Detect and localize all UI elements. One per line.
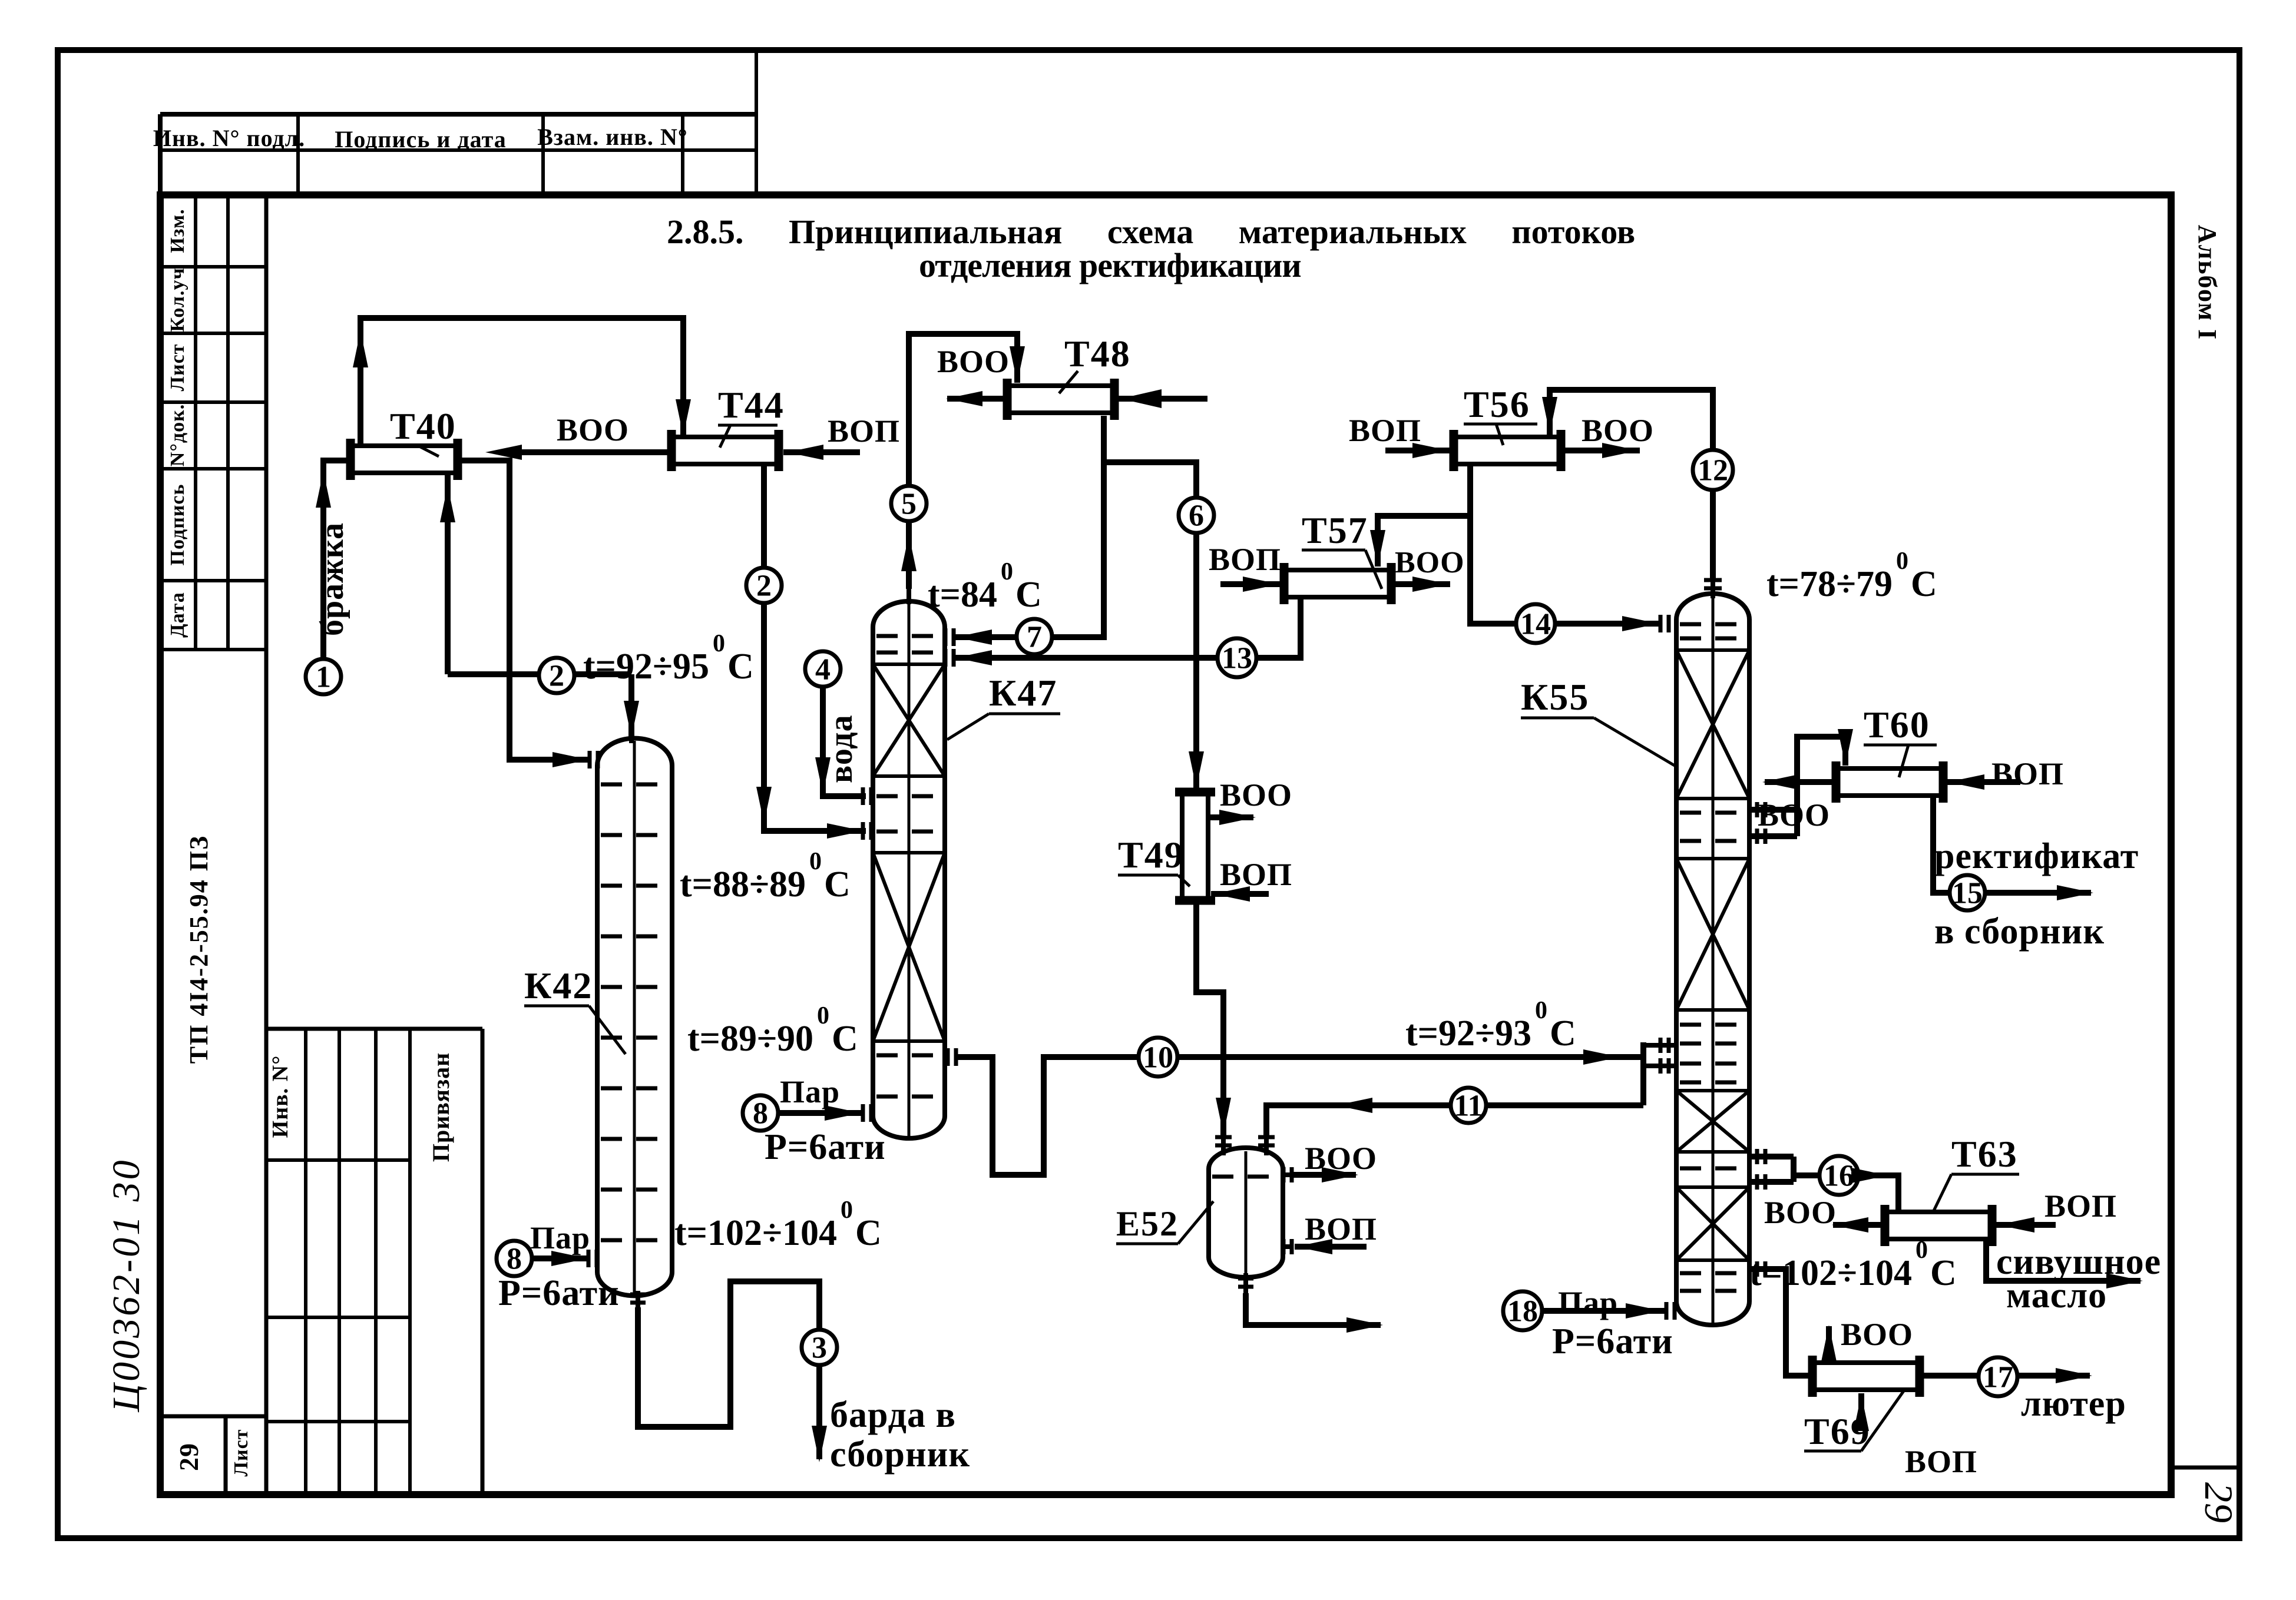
- svg-text:2: 2: [549, 660, 564, 693]
- column К55 draw tray: [1680, 1167, 1746, 1171]
- top margin table divider 2: [541, 114, 545, 195]
- svg-text:2: 2: [756, 569, 772, 603]
- arrow Т69 ВОО up: [1821, 1325, 1837, 1362]
- revision table row 2: [160, 332, 266, 335]
- svg-text:3: 3: [812, 1331, 827, 1365]
- arrow Е52 ВОО right: [1322, 1167, 1358, 1182]
- svg-text:6: 6: [1189, 499, 1204, 533]
- column К55 feed stubs: [1643, 1043, 1676, 1048]
- pipe К55 bottoms to Т69: [1749, 1269, 1812, 1376]
- column К55 centre line: [1712, 597, 1715, 1324]
- pipe Т44 ВОО outlet: [518, 449, 671, 455]
- column К55 packing 1: [1676, 648, 1749, 652]
- svg-text:Лист: Лист: [167, 344, 188, 392]
- arrow ВОП into Т57: [1243, 577, 1279, 592]
- pipe Т69 outlet line 17: [1921, 1373, 2090, 1379]
- arrow into Т48 down: [1010, 346, 1025, 383]
- pipe Т48 condensate to К47 line 7: [952, 416, 1104, 637]
- svg-text:ректификат: ректификат: [1934, 836, 2139, 876]
- svg-text:К42: К42: [524, 965, 593, 1006]
- arrow into К55 reflux: [1622, 616, 1659, 631]
- arrow line 11 into Е52: [1336, 1098, 1372, 1113]
- heat exchanger Т49 body: [1182, 792, 1208, 900]
- column К47 packing section 1: [873, 662, 945, 666]
- svg-text:Т44: Т44: [718, 384, 785, 426]
- arrow Т60 ВОП left: [1948, 774, 1984, 790]
- arrow Т63 ВОП left: [1998, 1217, 2034, 1233]
- attachment table top edge: [266, 1027, 482, 1031]
- arrow Т60 ВОО left: [1762, 774, 1799, 790]
- revision table col line b: [226, 195, 230, 650]
- column К55 draw nozzle flanges: [1755, 1149, 1759, 1164]
- svg-text:17: 17: [1983, 1361, 2013, 1394]
- column К47 feed zone tray 1: [876, 794, 941, 799]
- heat exchanger Т57 body: [1284, 570, 1391, 597]
- svg-text:Привязан: Привязан: [428, 1052, 454, 1162]
- pipe line 16 К55 to Т63: [1749, 1157, 1898, 1210]
- svg-text:Пар: Пар: [1558, 1285, 1618, 1320]
- column К55 bottom tray 1: [1680, 1271, 1746, 1276]
- column К47 top dashed tray 1: [876, 634, 941, 638]
- pipe Т63 ВОО out: [1833, 1222, 1885, 1228]
- svg-text:барда в: барда в: [830, 1395, 956, 1435]
- arrow into К47 feed: [827, 823, 864, 839]
- bottom-left cell divider: [224, 1416, 228, 1495]
- pipe Т44 ВОП inlet: [783, 449, 860, 455]
- arrow steam into К42: [551, 1251, 588, 1266]
- column К55 feed tray 3: [1680, 1062, 1746, 1066]
- column К47 feed nozzle flange: [861, 822, 865, 840]
- svg-text:Взам. инв. N°: Взам. инв. N°: [537, 124, 688, 150]
- vessel Е52 shell: [1209, 1148, 1283, 1277]
- svg-text:вода: вода: [823, 714, 859, 783]
- column К47 steam nozzle flange: [861, 1104, 865, 1122]
- column К47 top dashed tray 2: [876, 651, 941, 655]
- column К42 tray 3: [601, 884, 669, 888]
- arrow into Т40 shell up: [440, 486, 455, 522]
- stream circle 18: [1503, 1291, 1542, 1330]
- stream circle 1: [306, 659, 341, 694]
- column К42 tray 7: [601, 1086, 669, 1091]
- inner frame left column extension up: [158, 114, 163, 195]
- svg-text:18: 18: [1507, 1295, 1538, 1329]
- arrow Е52 bottoms right: [1346, 1317, 1383, 1333]
- arrow into К47 line 13: [955, 650, 992, 665]
- column К42 tray 4: [601, 935, 669, 939]
- column К42 tray 5: [601, 985, 669, 989]
- svg-text:ВОП: ВОП: [1905, 1444, 1977, 1479]
- column К47 shell: [873, 601, 945, 1138]
- pipe Т69 ВОП up: [1858, 1393, 1864, 1430]
- svg-text:ВОП: ВОП: [1991, 756, 2064, 791]
- stream circle 3: [802, 1330, 837, 1365]
- pipe ВОО out of Т57: [1391, 581, 1450, 587]
- svg-text:ВОО: ВОО: [1582, 413, 1654, 448]
- column К47 line10 nozzle flange: [946, 1048, 950, 1066]
- attachment table col 2: [338, 1029, 341, 1495]
- svg-text:Т63: Т63: [1951, 1133, 2018, 1175]
- svg-text:16: 16: [1824, 1160, 1854, 1193]
- svg-text:Р=6ати: Р=6ати: [765, 1127, 886, 1167]
- arrow вода down: [815, 757, 831, 794]
- svg-text:Р=6ати: Р=6ати: [1552, 1321, 1673, 1362]
- arrow into К47 line 7: [955, 630, 992, 645]
- column К47 water nozzle flange: [861, 787, 865, 805]
- heat exchanger Т40 body: [350, 446, 458, 473]
- revision table row 3: [160, 400, 266, 404]
- column К47 centre line: [908, 602, 911, 1137]
- svg-text:Т60: Т60: [1864, 704, 1930, 746]
- arrow Т69 ВОП up: [1854, 1394, 1869, 1431]
- svg-text:Подпись: Подпись: [167, 484, 188, 566]
- column К42 tray 2: [601, 833, 669, 837]
- svg-text:Т40: Т40: [390, 405, 456, 447]
- column К47 bottom dashed tray 2: [876, 1095, 941, 1099]
- column К42 feed nozzle flange: [588, 751, 592, 768]
- svg-text:Изм.: Изм.: [167, 208, 188, 253]
- column К55 reflux tray 1: [1680, 622, 1746, 627]
- revision table right edge: [264, 195, 269, 1495]
- svg-text:7: 7: [1027, 621, 1042, 654]
- arrow К47 vapour up: [901, 535, 917, 571]
- vessel Е52 bottom stub: [1243, 1273, 1248, 1293]
- arrow Е52 ВОП left: [1296, 1239, 1332, 1254]
- column К55 shell: [1676, 594, 1749, 1325]
- attachment table row 2: [266, 1316, 410, 1319]
- column К47 vapour stub: [907, 589, 911, 604]
- svg-text:отделения ректификации: отделения ректификации: [919, 246, 1301, 284]
- svg-text:ВОО: ВОО: [1395, 546, 1465, 579]
- svg-text:Лист: Лист: [230, 1429, 252, 1477]
- top margin table right divider / fold line: [755, 50, 758, 195]
- column К55 steam nozzle flange: [1665, 1302, 1669, 1320]
- pipe Е52 bottoms out: [1246, 1293, 1381, 1325]
- arrow into Т44 down: [676, 399, 691, 436]
- column К47 bottom dashed tray 1: [876, 1054, 941, 1058]
- vessel Е52 top nozzle left: [1221, 1137, 1226, 1155]
- pipe line 13 Т57 to К47: [952, 599, 1301, 658]
- stream circle 10: [1139, 1038, 1177, 1076]
- column К42 bottom stub: [636, 1291, 640, 1309]
- svg-text:сборник: сборник: [830, 1435, 970, 1475]
- arrow Т44 ВОП left: [787, 445, 823, 460]
- pipe ректификат line 15: [1933, 796, 2091, 893]
- pipe К55 sidedraw to Т60: [1749, 737, 1845, 836]
- stream circle 4: [805, 651, 841, 687]
- arrow ректификат right: [2057, 885, 2093, 900]
- revision table row 6: [160, 648, 266, 651]
- column К55 reflux tray 2: [1680, 637, 1746, 641]
- column К47 packing section 2: [873, 851, 945, 854]
- svg-text:8: 8: [753, 1097, 768, 1131]
- svg-text:10: 10: [1143, 1041, 1173, 1075]
- svg-text:15: 15: [1952, 877, 1983, 910]
- attachment table col 3: [374, 1029, 378, 1495]
- svg-text:Пар: Пар: [530, 1220, 590, 1256]
- svg-text:ВОП: ВОП: [2044, 1188, 2117, 1224]
- top margin table top edge: [160, 112, 756, 117]
- svg-text:Т48: Т48: [1064, 333, 1131, 375]
- svg-text:Подпись и дата: Подпись и дата: [335, 126, 507, 153]
- stream circle 16: [1819, 1156, 1858, 1195]
- arrow бражка up: [316, 471, 331, 508]
- svg-text:Инв. N°: Инв. N°: [268, 1055, 293, 1138]
- attachment table row 1: [266, 1158, 410, 1162]
- column К55 bottom tray 2: [1680, 1289, 1746, 1293]
- svg-text:Инв. N° подл.: Инв. N° подл.: [153, 125, 305, 151]
- pipe Т48 ВОП inlet: [1114, 396, 1207, 402]
- arrow Т48 ВОП left: [1120, 389, 1162, 408]
- bottom-left cell top line: [160, 1415, 266, 1419]
- drawing inner frame: [160, 195, 2171, 1495]
- svg-text:ВОО: ВОО: [1220, 777, 1292, 813]
- arrow сивушное масло right: [2106, 1273, 2143, 1288]
- attachment table col 4: [408, 1029, 412, 1495]
- arrow steam into К55: [1626, 1303, 1662, 1319]
- column К42 centre line: [633, 741, 636, 1294]
- stream circle 7: [1017, 619, 1052, 654]
- svg-text:ВОО: ВОО: [1305, 1141, 1377, 1176]
- stream circle 2 below Т44: [746, 568, 782, 603]
- column К42 tray 1: [601, 783, 669, 787]
- svg-text:N°док.: N°док.: [167, 404, 188, 466]
- svg-text:Кол.уч: Кол.уч: [167, 267, 188, 332]
- column К42 tray 9: [601, 1188, 669, 1192]
- column К42 tray 8: [601, 1137, 669, 1141]
- arrow into К42 top down: [624, 701, 639, 737]
- pipe Т40 outlet to К42 feed: [458, 461, 591, 760]
- stream circle 6: [1179, 498, 1214, 533]
- pipe line 6 branch to Т49: [1104, 462, 1196, 790]
- arrow Т63 ВОО left: [1832, 1217, 1868, 1233]
- column К55 reflux nozzle flange: [1659, 615, 1663, 632]
- column К55 feed tray 1: [1680, 1023, 1746, 1027]
- svg-text:Р=6ати: Р=6ати: [498, 1273, 620, 1313]
- pipe ВОП into Т56: [1385, 448, 1450, 453]
- pipe Е52 ВОП in: [1295, 1244, 1367, 1250]
- pipe line 10 К47 to К55 with seal loop: [954, 1042, 1643, 1175]
- svg-text:13: 13: [1222, 642, 1252, 675]
- arrow line 10 right: [1583, 1049, 1620, 1065]
- arrow ВОО out of Т57: [1412, 577, 1449, 592]
- column К42 tray 6: [601, 1036, 669, 1040]
- arrow into Т60 down: [1838, 729, 1853, 766]
- svg-text:Т49: Т49: [1118, 834, 1185, 876]
- revision table row 1: [160, 265, 266, 269]
- pipe Т49 outlet to Е52: [1196, 900, 1223, 1137]
- svg-text:8: 8: [507, 1243, 522, 1276]
- top margin table divider 1: [296, 114, 300, 195]
- attachment table col 1: [304, 1029, 307, 1495]
- column К55 sidedraw tray 2: [1680, 839, 1746, 843]
- pipe steam to К47: [779, 1110, 864, 1116]
- pipe Т60 ВОП in: [1943, 779, 2020, 785]
- heat exchanger Т44 body: [671, 437, 779, 464]
- pipe ВОО out of Т56: [1562, 448, 1640, 453]
- vessel Е52 top nozzle right: [1264, 1137, 1269, 1155]
- stream circle 5: [891, 486, 927, 521]
- top margin table mid line: [160, 148, 756, 152]
- svg-text:ВОО: ВОО: [1841, 1317, 1913, 1352]
- column К47 nozzle line7 flange: [944, 628, 948, 646]
- stream circle 8 at К47: [743, 1095, 778, 1131]
- arrow into Т57 down: [1370, 530, 1385, 567]
- vessel Е52 centre line: [1245, 1151, 1248, 1275]
- column К47 nozzle line13 flange: [944, 649, 948, 667]
- arrow into Т56 down: [1542, 397, 1557, 433]
- stream circle 2 on К42 vapour line: [539, 658, 574, 693]
- pipe Т63 ВОП in: [1993, 1222, 2056, 1228]
- revision table row 5: [160, 579, 266, 582]
- svg-text:Е52: Е52: [1116, 1204, 1179, 1243]
- stream circle 15: [1950, 875, 1985, 910]
- revision table row 4: [160, 467, 266, 471]
- pipe сивушное масло out: [1986, 1238, 2140, 1281]
- arrow лютер right: [2056, 1368, 2092, 1383]
- svg-text:ВОП: ВОП: [828, 413, 900, 449]
- arrow Т44 condensate down: [756, 787, 772, 823]
- pipe бражка feed to Т40: [323, 461, 350, 659]
- arrow Т48 ВОО left: [946, 391, 982, 406]
- svg-text:ВОП: ВОП: [1305, 1211, 1377, 1247]
- pipe line 11 to Е52: [1266, 1105, 1643, 1137]
- vessel Е52 side nozzle ВОП: [1283, 1244, 1293, 1249]
- pipe Т49 ВОП in: [1211, 891, 1269, 897]
- pipe К47 vapour to Т48: [909, 334, 1017, 589]
- svg-text:4: 4: [815, 653, 831, 687]
- svg-text:Пар: Пар: [780, 1074, 840, 1109]
- stream circle 13: [1218, 638, 1256, 677]
- column К55 feed nozzle flanges: [1659, 1038, 1663, 1053]
- vessel Е52 side nozzle ВОО: [1283, 1172, 1293, 1177]
- svg-text:Т56: Т56: [1464, 383, 1530, 425]
- svg-text:ВОП: ВОП: [1349, 413, 1421, 448]
- column К55 packing 4: [1676, 1185, 1749, 1189]
- column К42 shell: [597, 738, 672, 1296]
- svg-text:5: 5: [901, 488, 917, 521]
- heat exchanger Т48 body: [1007, 386, 1114, 413]
- heat exchanger Т56 body: [1454, 437, 1561, 464]
- svg-text:в сборник: в сборник: [1934, 912, 2105, 952]
- pipe вода to К47: [823, 687, 866, 796]
- svg-text:1: 1: [316, 661, 331, 694]
- arrow into Е52 down: [1216, 1098, 1231, 1134]
- attachment table right edge: [481, 1029, 485, 1495]
- column К55 sidedraw nozzle flanges: [1755, 802, 1759, 817]
- stream circle 8 at К42: [497, 1241, 532, 1276]
- svg-text:К47: К47: [989, 672, 1057, 714]
- pipe steam to К42: [533, 1256, 589, 1261]
- pipe Т56 condensate line 14 to К55: [1470, 464, 1661, 624]
- column К47 feed zone tray 2: [876, 830, 941, 834]
- stream circle 12: [1693, 450, 1733, 490]
- svg-text:Дата: Дата: [167, 592, 188, 638]
- arrow into К42 feed: [553, 752, 589, 767]
- arrow ВОО out of Т56: [1602, 443, 1639, 458]
- stream circle 11: [1451, 1088, 1486, 1123]
- svg-text:Альбом I: Альбом I: [2193, 225, 2222, 340]
- pipe ВОП into Т57: [1220, 581, 1281, 587]
- svg-text:ВОО: ВОО: [1764, 1195, 1837, 1230]
- column К55 sidedraw tray 1: [1680, 811, 1746, 815]
- pipe Т69 ВОО up: [1826, 1326, 1832, 1363]
- pipe Т40 overheads line: [360, 318, 683, 446]
- column К42 tray 10: [601, 1238, 669, 1243]
- arrow line 16 right: [1851, 1168, 1888, 1183]
- bottom-right sheet cell: [2171, 1466, 2239, 1470]
- svg-text:2.8.5. Принципиальная схема ма: 2.8.5. Принципиальная схема материальных…: [667, 213, 1635, 251]
- svg-text:ВОО: ВОО: [1758, 797, 1830, 833]
- pipe Т49 ВОО out: [1207, 814, 1253, 820]
- column К55 top stub: [1711, 578, 1715, 598]
- pipe К55 vapour line 12 to Т56: [1550, 390, 1713, 578]
- stream circle 14: [1516, 604, 1555, 643]
- svg-text:К55: К55: [1521, 676, 1589, 718]
- column К55 feed tray 4: [1680, 1081, 1746, 1085]
- arrow барда down: [812, 1426, 827, 1462]
- svg-text:ТП 4I4-2-55.94 ПЗ: ТП 4I4-2-55.94 ПЗ: [184, 835, 213, 1064]
- stream circle 17: [1979, 1357, 2017, 1396]
- heat exchanger Т69 body: [1812, 1363, 1920, 1390]
- pipe барда from К42: [638, 1281, 819, 1459]
- column К55 bottoms nozzle flange: [1755, 1261, 1759, 1277]
- arrow steam into К47: [825, 1105, 861, 1121]
- revision table col line a: [194, 195, 197, 650]
- svg-text:Т57: Т57: [1302, 509, 1368, 551]
- arrow line 6 down: [1189, 751, 1204, 788]
- svg-text:бражка: бражка: [314, 522, 350, 636]
- column К55 packing 2: [1676, 857, 1749, 860]
- heat exchanger Т60 body: [1836, 768, 1943, 796]
- pipe Т48 ВОО outlet: [947, 396, 1007, 402]
- svg-text:29: 29: [174, 1443, 204, 1471]
- pipe branch into Т57 top: [1378, 516, 1470, 567]
- arrow Т40 overheads up: [353, 331, 368, 367]
- column К42 steam nozzle flange: [587, 1250, 591, 1267]
- arrow Т44 ВОО left: [485, 445, 522, 460]
- svg-text:ВОП: ВОП: [1220, 857, 1292, 892]
- column К55 packing 3: [1676, 1089, 1749, 1092]
- arrow Т49 ВОП left: [1213, 886, 1250, 902]
- svg-text:лютер: лютер: [2021, 1384, 2126, 1424]
- svg-text:масло: масло: [2006, 1276, 2107, 1316]
- svg-text:29: 29: [2196, 1482, 2241, 1523]
- svg-text:11: 11: [1454, 1089, 1483, 1123]
- svg-text:14: 14: [1520, 608, 1551, 641]
- pipe Т44 condensate to К47 feed: [764, 464, 866, 831]
- top margin table divider 3: [681, 114, 684, 195]
- attachment table row 3: [266, 1420, 410, 1423]
- svg-text:ВОП: ВОП: [1209, 542, 1281, 577]
- pipe steam to К55: [1543, 1308, 1665, 1314]
- svg-text:ВОО: ВОО: [937, 344, 1010, 379]
- heat exchanger Т63 body: [1885, 1212, 1992, 1239]
- pipe Т60 ВОО out: [1765, 779, 1836, 785]
- svg-text:12: 12: [1698, 454, 1728, 488]
- pipe К42 vapour to Т40 shell: [448, 473, 631, 738]
- vessel Е52 top dashed line: [1212, 1175, 1279, 1179]
- arrow ВОП into Т56: [1412, 443, 1449, 458]
- svg-text:Ц00362-01 30: Ц00362-01 30: [105, 1158, 148, 1412]
- pipe Е52 ВОО out: [1293, 1172, 1356, 1178]
- arrow Т49 ВОО right: [1219, 810, 1256, 825]
- svg-text:ВОО: ВОО: [557, 412, 629, 448]
- column К42 top stub: [629, 726, 634, 743]
- column К55 feed tray 2: [1680, 1042, 1746, 1046]
